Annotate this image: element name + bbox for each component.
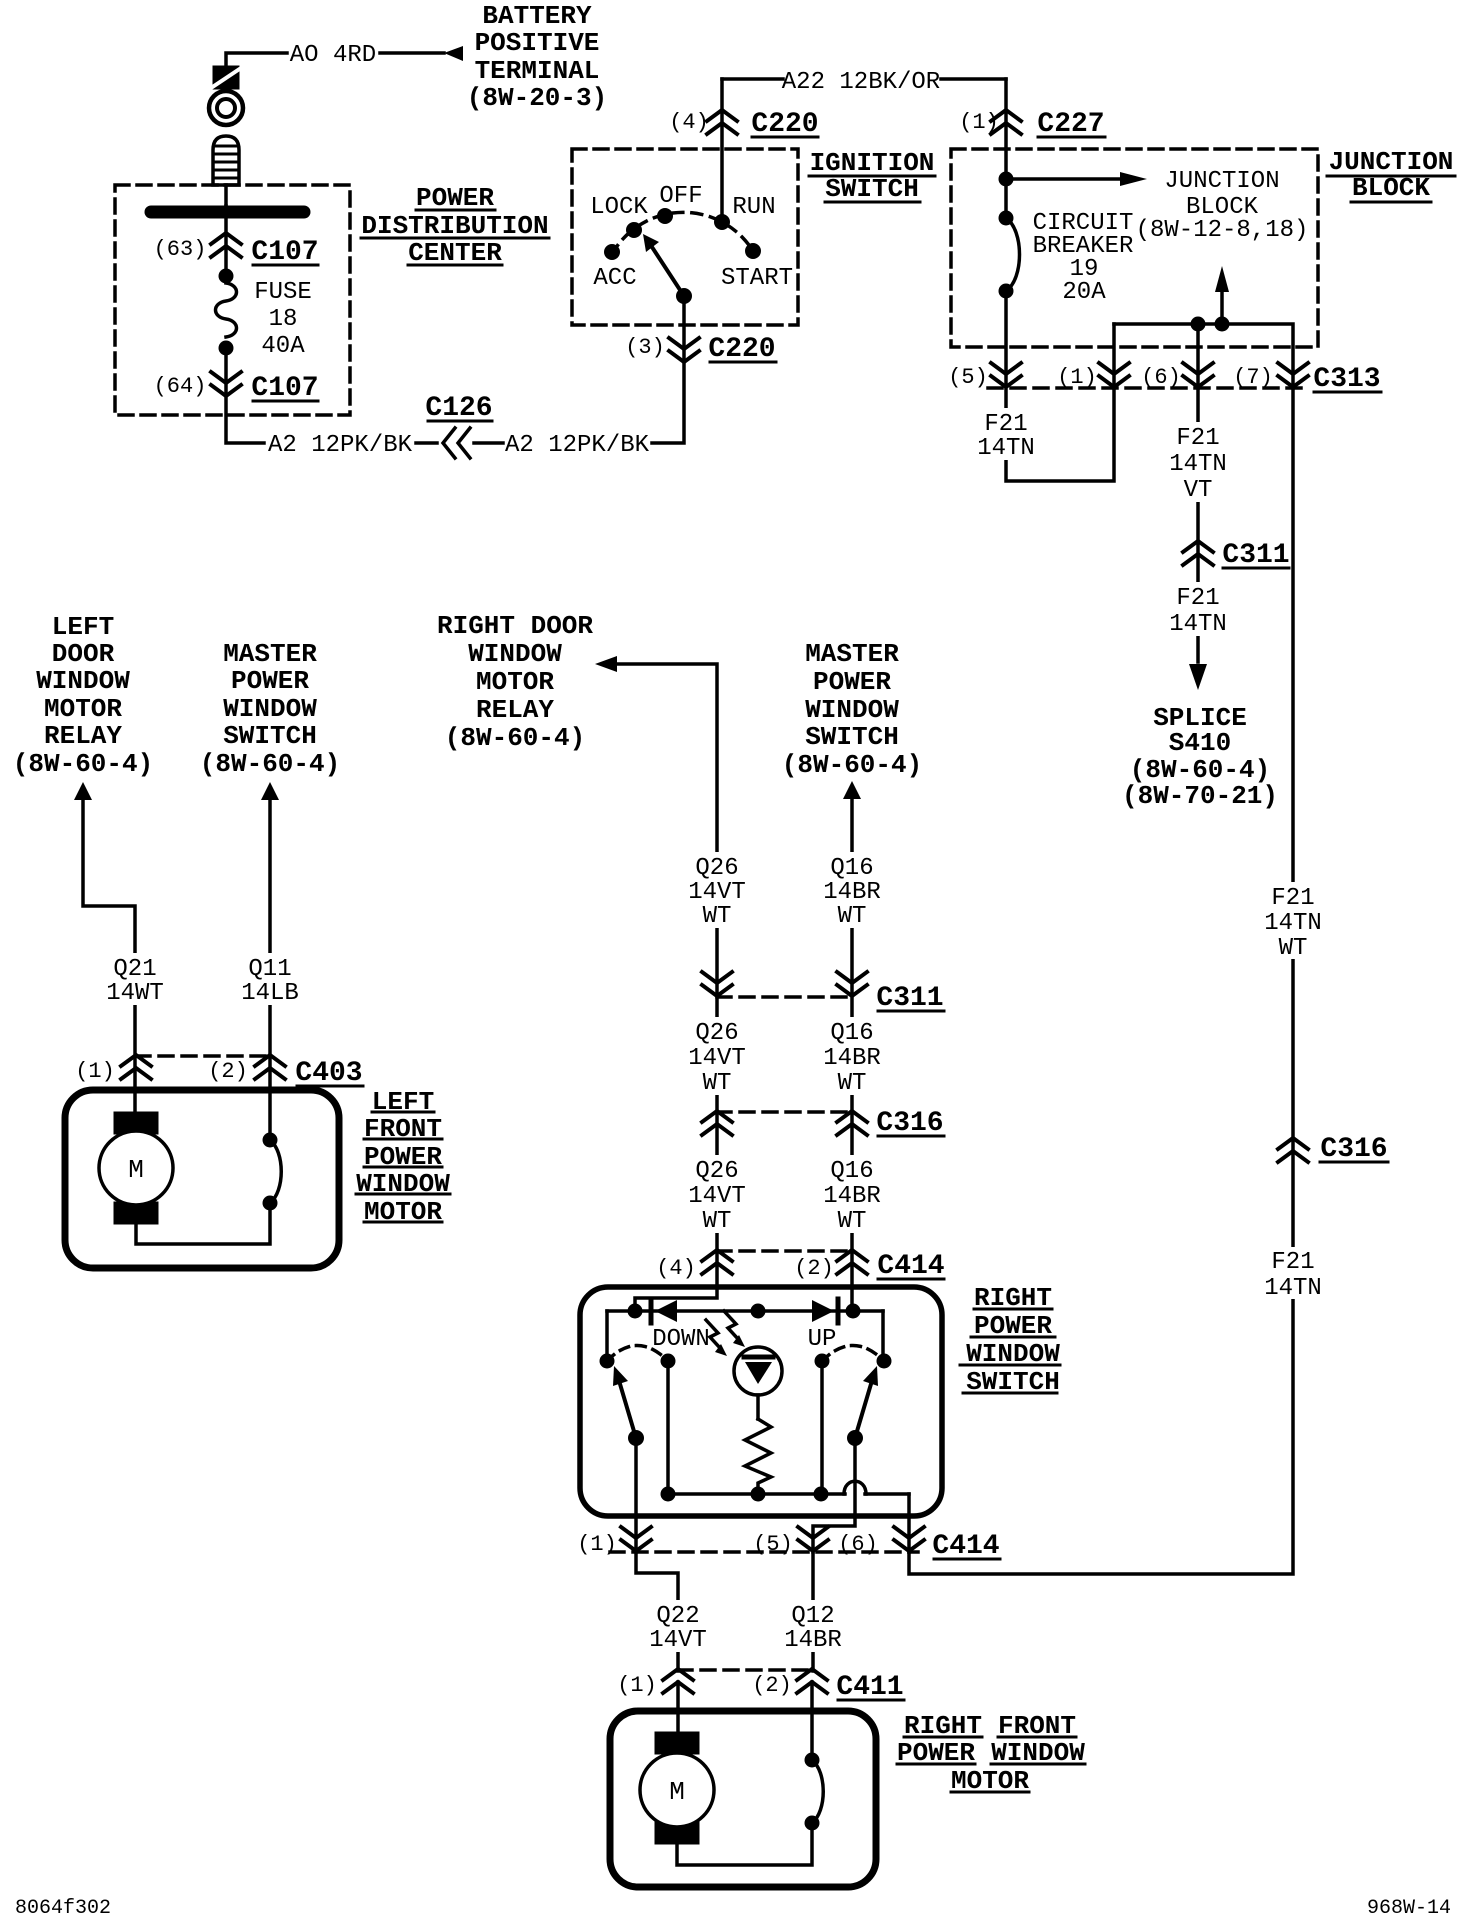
connector C311 pin Q26 xyxy=(702,972,732,996)
wire rail to left contact xyxy=(605,1311,609,1361)
label wire Q12 14BR xyxy=(777,1600,849,1652)
svg-text:C107: C107 xyxy=(251,373,318,404)
svg-text:WT: WT xyxy=(838,1208,867,1235)
LED lamp xyxy=(734,1347,782,1395)
node rail left xyxy=(628,1304,643,1319)
svg-text:14VT: 14VT xyxy=(688,1045,746,1072)
connector C403 dashed line xyxy=(136,1054,270,1058)
wire terminal post to bus bar xyxy=(224,185,228,206)
svg-text:C220: C220 xyxy=(751,109,818,140)
battery terminal post xyxy=(213,136,239,185)
svg-text:(1): (1) xyxy=(959,110,999,135)
node rail junction 1 xyxy=(1191,317,1206,332)
connector C316 right xyxy=(1278,1138,1308,1162)
label wire Q16 14BR WT 1 xyxy=(816,852,888,928)
connector C220 pin 4 xyxy=(707,110,737,134)
diode DOWN xyxy=(649,1299,654,1323)
right front power window motor box xyxy=(610,1711,876,1887)
svg-text:(5): (5) xyxy=(948,365,988,390)
ignition rotor arrowhead xyxy=(643,234,659,252)
label wire Q22 14VT xyxy=(642,1600,714,1652)
svg-text:C414: C414 xyxy=(877,1251,944,1282)
svg-text:LOCK: LOCK xyxy=(590,194,648,221)
svg-text:(8W-70-21): (8W-70-21) xyxy=(1122,781,1278,811)
node fuse top xyxy=(219,269,234,284)
wire A22 to RUN contact xyxy=(720,79,724,222)
switch right contact B xyxy=(877,1354,892,1369)
svg-text:14VT: 14VT xyxy=(688,1183,746,1210)
svg-text:OFF: OFF xyxy=(659,183,702,210)
arrow up inside junction block xyxy=(1220,291,1224,324)
left motor brush top xyxy=(114,1112,158,1134)
node bottom rail left xyxy=(661,1487,676,1502)
contact RUN xyxy=(714,214,730,230)
left motor switch arc xyxy=(270,1140,281,1203)
connector C411 pin 1 xyxy=(663,1669,693,1693)
svg-text:C311: C311 xyxy=(1222,540,1289,571)
svg-text:14BR: 14BR xyxy=(784,1627,842,1654)
right motor switch contact bottom xyxy=(805,1816,820,1831)
wire left pivot to C414 pin 1 xyxy=(634,1438,638,1552)
right motor brush top xyxy=(655,1732,699,1754)
svg-text:WT: WT xyxy=(703,1070,732,1097)
svg-text:F21: F21 xyxy=(1176,425,1219,452)
connector C107 pin 64 xyxy=(211,372,241,396)
wire C126 to A2 right xyxy=(474,441,503,445)
svg-text:MASTER: MASTER xyxy=(223,639,317,669)
motor M left xyxy=(99,1131,173,1205)
contact START xyxy=(745,243,761,259)
junction block output rail xyxy=(1114,324,1293,388)
svg-text:(6): (6) xyxy=(1141,365,1181,390)
junction block box xyxy=(951,149,1318,347)
label wire Q26 14VT WT 3 xyxy=(681,1155,753,1233)
label wire Q16 14BR WT 2 xyxy=(816,1017,888,1095)
wire fuse to A2 xyxy=(226,355,264,443)
wire A2 to C126 xyxy=(416,441,437,445)
wire LED to resistor xyxy=(756,1395,760,1419)
svg-text:MOTOR: MOTOR xyxy=(44,694,122,724)
svg-text:WT: WT xyxy=(1279,935,1308,962)
wire C313 pin6 to C311 xyxy=(1196,388,1200,662)
svg-text:C316: C316 xyxy=(876,1108,943,1139)
svg-text:40A: 40A xyxy=(261,333,305,360)
wire Q21 left relay to motor xyxy=(83,800,135,1112)
label wire F21 14TN VT xyxy=(1162,422,1234,502)
connector C313 pin 1 xyxy=(1099,363,1129,387)
label wire Q26 14VT WT 2 xyxy=(681,1017,753,1095)
svg-text:14VT: 14VT xyxy=(688,879,746,906)
connector C414 pin 6 xyxy=(894,1527,924,1551)
connector C411 pin 2 xyxy=(797,1669,827,1693)
svg-text:Q16: Q16 xyxy=(830,1020,873,1047)
left motor switch contact bottom xyxy=(263,1196,278,1211)
circuit breaker 19 20A xyxy=(999,211,1014,226)
connector C414 pin 2 xyxy=(837,1250,867,1274)
wire breaker to C313 pin 5 xyxy=(1006,291,1114,481)
contact LOCK xyxy=(626,222,642,238)
svg-text:WINDOW: WINDOW xyxy=(805,695,899,725)
node rail center xyxy=(751,1304,766,1319)
connector C414 dashed line top xyxy=(717,1249,852,1253)
svg-text:8064f302: 8064f302 xyxy=(15,1897,111,1920)
ignition rotor pivot xyxy=(676,288,692,304)
label wire Q21 14WT xyxy=(99,953,171,1005)
svg-text:(7): (7) xyxy=(1233,365,1273,390)
svg-text:WINDOW: WINDOW xyxy=(468,639,562,669)
right motor brush bottom xyxy=(655,1822,699,1844)
label wire F21 14TN right lower xyxy=(1257,1247,1329,1299)
switch left dashed arc xyxy=(607,1346,668,1362)
diode UP xyxy=(812,1300,834,1322)
left motor brush bottom xyxy=(114,1202,158,1224)
svg-text:14BR: 14BR xyxy=(823,879,881,906)
power distribution center box xyxy=(115,185,350,415)
svg-text:(8W-12-8,18): (8W-12-8,18) xyxy=(1136,217,1309,244)
connector C311 right xyxy=(1183,541,1213,565)
connector C414 dashed line bottom xyxy=(610,1550,918,1554)
arrow to splice S410 xyxy=(1189,664,1207,690)
connector C316 pin Q26 xyxy=(702,1111,732,1135)
wire C411 pin2 to right motor switch xyxy=(810,1682,814,1760)
svg-text:C411: C411 xyxy=(836,1672,903,1703)
bus bar xyxy=(151,206,304,219)
node bottom rail center xyxy=(751,1487,766,1502)
resistor xyxy=(745,1419,771,1487)
node rail junction 2 xyxy=(1215,317,1230,332)
svg-text:LEFT: LEFT xyxy=(52,612,114,642)
svg-text:RELAY: RELAY xyxy=(44,721,122,751)
connector C313 dashed line xyxy=(988,386,1302,390)
illumination arrows xyxy=(706,1320,721,1349)
svg-text:14TN: 14TN xyxy=(1264,1275,1322,1302)
svg-text:(64): (64) xyxy=(154,374,207,399)
svg-text:JUNCTION: JUNCTION xyxy=(1164,168,1279,195)
svg-text:M: M xyxy=(128,1155,144,1185)
svg-text:WINDOW: WINDOW xyxy=(36,666,130,696)
svg-text:Q16: Q16 xyxy=(830,1158,873,1185)
svg-text:RUN: RUN xyxy=(732,194,775,221)
switch right blade xyxy=(855,1384,871,1438)
connector C313 pin 5 xyxy=(991,363,1021,387)
svg-text:POWER: POWER xyxy=(231,666,309,696)
switch right pivot xyxy=(847,1430,863,1446)
svg-text:(8W-60-4): (8W-60-4) xyxy=(782,750,922,780)
svg-text:Q26: Q26 xyxy=(695,1158,738,1185)
switch left contact B xyxy=(661,1354,676,1369)
wire A2 to ignition switch xyxy=(652,296,684,443)
svg-text:SWITCH: SWITCH xyxy=(223,721,317,751)
right power window switch box xyxy=(580,1287,942,1516)
svg-text:14LB: 14LB xyxy=(241,980,299,1007)
wire Q26 relay to switch xyxy=(617,664,717,1311)
arrow to junction block xyxy=(1006,177,1120,181)
svg-text:(1): (1) xyxy=(617,1673,657,1698)
svg-text:(4): (4) xyxy=(669,110,709,135)
svg-text:AO 4RD: AO 4RD xyxy=(290,42,376,69)
svg-text:C126: C126 xyxy=(425,393,492,424)
wire C411 pin1 to right motor xyxy=(676,1682,680,1732)
svg-text:14TN: 14TN xyxy=(977,435,1035,462)
svg-text:18: 18 xyxy=(269,306,298,333)
svg-text:Q22: Q22 xyxy=(656,1603,699,1630)
connector C403 pin 2 xyxy=(255,1055,285,1079)
svg-text:WINDOW: WINDOW xyxy=(223,694,317,724)
svg-text:14BR: 14BR xyxy=(823,1183,881,1210)
wire right contact A down xyxy=(820,1361,824,1494)
wire A22 12BK/OR xyxy=(722,77,783,81)
fuse 18 40A xyxy=(216,283,237,337)
svg-text:(2): (2) xyxy=(208,1059,248,1084)
svg-text:TERMINAL: TERMINAL xyxy=(475,56,600,86)
svg-text:(2): (2) xyxy=(752,1673,792,1698)
arrow from master power window switch left xyxy=(261,782,279,800)
switch left blade xyxy=(620,1384,636,1438)
svg-text:Q12: Q12 xyxy=(791,1603,834,1630)
svg-text:C227: C227 xyxy=(1037,109,1104,140)
contact ACC xyxy=(604,244,620,260)
svg-text:A22 12BK/OR: A22 12BK/OR xyxy=(782,69,940,96)
svg-text:C311: C311 xyxy=(876,983,943,1014)
connector C403 pin 1 xyxy=(121,1055,151,1079)
switch left contact A xyxy=(600,1354,615,1369)
left motor switch contact top xyxy=(263,1133,278,1148)
connector C313 pin 7 xyxy=(1278,363,1308,387)
ignition rotor blade xyxy=(650,244,684,296)
connector C316 dashed line xyxy=(717,1110,852,1114)
ignition rotary dashed arc xyxy=(612,212,753,254)
wire right pivot to C414 pin 5 xyxy=(813,1438,855,1552)
arrow to right door window motor relay xyxy=(595,656,617,672)
svg-text:C403: C403 xyxy=(295,1058,362,1089)
label wire F21 14TN pin5 xyxy=(973,408,1039,460)
switch left pivot xyxy=(628,1430,644,1446)
svg-text:F21: F21 xyxy=(1176,585,1219,612)
connector C313 pin 6 xyxy=(1183,363,1213,387)
svg-text:UP: UP xyxy=(808,1326,837,1353)
svg-text:(8W-20-3): (8W-20-3) xyxy=(467,83,607,113)
right motor switch arc xyxy=(812,1760,823,1823)
svg-text:FUSE: FUSE xyxy=(254,279,312,306)
svg-text:S410: S410 xyxy=(1169,728,1231,758)
arrow to battery positive terminal xyxy=(444,46,463,61)
svg-text:MOTOR: MOTOR xyxy=(476,667,554,697)
svg-text:VT: VT xyxy=(1184,477,1213,504)
wire C313 pin7 to right power window switch xyxy=(909,388,1293,1574)
svg-text:(8W-60-4): (8W-60-4) xyxy=(445,723,585,753)
svg-text:WT: WT xyxy=(703,903,732,930)
svg-text:BATTERY: BATTERY xyxy=(482,1,592,31)
svg-text:(1): (1) xyxy=(1057,365,1097,390)
svg-text:F21: F21 xyxy=(1271,885,1314,912)
svg-text:(8W-60-4): (8W-60-4) xyxy=(13,749,153,779)
wire left contact B down xyxy=(666,1361,670,1494)
svg-text:14BR: 14BR xyxy=(823,1045,881,1072)
svg-text:MASTER: MASTER xyxy=(805,639,899,669)
svg-text:Q16: Q16 xyxy=(830,855,873,882)
svg-text:SWITCH: SWITCH xyxy=(805,722,899,752)
svg-text:14TN: 14TN xyxy=(1169,611,1227,638)
svg-text:14VT: 14VT xyxy=(649,1627,707,1654)
svg-text:F21: F21 xyxy=(1271,1249,1314,1276)
svg-text:(6): (6) xyxy=(838,1532,878,1557)
connector C227 pin 1 xyxy=(991,110,1021,134)
svg-text:C313: C313 xyxy=(1313,364,1380,395)
label wire Q26 14VT WT 1 xyxy=(681,852,753,928)
svg-text:WT: WT xyxy=(838,903,867,930)
switch right contact A xyxy=(815,1354,830,1369)
svg-text:WT: WT xyxy=(703,1208,732,1235)
svg-text:START: START xyxy=(721,265,793,292)
svg-text:ACC: ACC xyxy=(593,265,636,292)
battery terminal cable clamp xyxy=(213,66,239,89)
ignition switch box xyxy=(572,149,798,325)
connector C220 pin 3 xyxy=(669,338,699,362)
label wire Q16 14BR WT 3 xyxy=(816,1155,888,1233)
connector C411 dashed line xyxy=(678,1668,812,1672)
wire AO 4RD from battery terminal xyxy=(226,53,287,67)
battery terminal ring xyxy=(209,91,243,125)
svg-text:(1): (1) xyxy=(577,1532,617,1557)
wire rail to right contact xyxy=(881,1311,885,1361)
wire C227 to circuit breaker xyxy=(1004,79,1008,218)
wire left motor return xyxy=(136,1203,270,1244)
svg-text:POWER: POWER xyxy=(813,667,891,697)
svg-text:Q21: Q21 xyxy=(113,956,156,983)
svg-text:POSITIVE: POSITIVE xyxy=(475,28,600,58)
switch top rail xyxy=(607,1309,883,1313)
connector C311 pin Q16 xyxy=(837,972,867,996)
svg-text:C316: C316 xyxy=(1320,1134,1387,1165)
arrow from left door window motor relay xyxy=(74,782,92,800)
svg-text:968W-14: 968W-14 xyxy=(1367,1897,1451,1920)
svg-text:Q26: Q26 xyxy=(695,1020,738,1047)
svg-text:A2 12PK/BK: A2 12PK/BK xyxy=(505,432,650,459)
contact OFF xyxy=(657,208,673,224)
svg-text:SWITCH: SWITCH xyxy=(825,174,919,204)
svg-text:(4): (4) xyxy=(656,1256,696,1281)
connector C414 pin 5 xyxy=(798,1527,828,1551)
node bottom rail right xyxy=(814,1487,829,1502)
connector C311 dashed line xyxy=(717,995,852,999)
svg-text:DOWN: DOWN xyxy=(652,1326,710,1353)
label wire Q11 14LB xyxy=(234,953,306,1005)
svg-text:20A: 20A xyxy=(1062,279,1106,306)
switch right dashed arc xyxy=(822,1346,884,1362)
svg-text:RIGHT DOOR: RIGHT DOOR xyxy=(437,611,593,641)
label wire F21 14TN mid xyxy=(1162,582,1234,636)
label wire F21 14TN WT right xyxy=(1257,882,1329,959)
svg-text:F21: F21 xyxy=(984,411,1027,438)
svg-text:C107: C107 xyxy=(251,237,318,268)
svg-text:14TN: 14TN xyxy=(1169,451,1227,478)
motor M right xyxy=(640,1753,714,1827)
svg-text:(63): (63) xyxy=(154,237,207,262)
connector C107 pin 63 xyxy=(211,233,241,257)
svg-text:(5): (5) xyxy=(753,1532,793,1557)
right motor switch contact top xyxy=(805,1753,820,1768)
connector C126 xyxy=(443,428,455,458)
arrow from master power window switch right xyxy=(843,781,861,799)
svg-text:Q11: Q11 xyxy=(248,956,291,983)
wire bottom rail to C414 pin 6 xyxy=(907,1494,911,1552)
node rail right xyxy=(846,1304,861,1319)
svg-text:14TN: 14TN xyxy=(1264,910,1322,937)
svg-text:(3): (3) xyxy=(625,335,665,360)
svg-text:A2 12PK/BK: A2 12PK/BK xyxy=(268,432,413,459)
wire Q11 master switch to motor xyxy=(268,800,272,1140)
svg-text:DOOR: DOOR xyxy=(52,639,115,669)
connector C414 pin 1 xyxy=(621,1527,651,1551)
left front power window motor box xyxy=(65,1090,339,1268)
node junction block feed xyxy=(999,172,1014,187)
svg-text:C220: C220 xyxy=(708,334,775,365)
node fuse bottom xyxy=(219,341,234,356)
svg-text:(1): (1) xyxy=(75,1059,115,1084)
svg-text:(8W-60-4): (8W-60-4) xyxy=(200,749,340,779)
connector C316 pin Q16 xyxy=(837,1111,867,1135)
connector C414 pin 4 xyxy=(702,1250,732,1274)
wire bus bar to fuse xyxy=(224,206,228,276)
svg-text:WT: WT xyxy=(838,1070,867,1097)
wire C414 pin5 to C411 xyxy=(811,1552,815,1671)
wire Q16 master switch to switch xyxy=(850,799,854,1311)
svg-text:14WT: 14WT xyxy=(106,980,164,1007)
svg-text:(2): (2) xyxy=(794,1256,834,1281)
svg-text:M: M xyxy=(669,1777,685,1807)
svg-text:BLOCK: BLOCK xyxy=(1352,173,1430,203)
wire C414 pin1 to C411 xyxy=(636,1552,678,1671)
svg-text:RELAY: RELAY xyxy=(476,695,554,725)
svg-text:C414: C414 xyxy=(932,1531,999,1562)
switch bottom rail xyxy=(668,1492,845,1496)
wire right motor return xyxy=(677,1823,812,1865)
svg-text:Q26: Q26 xyxy=(695,855,738,882)
